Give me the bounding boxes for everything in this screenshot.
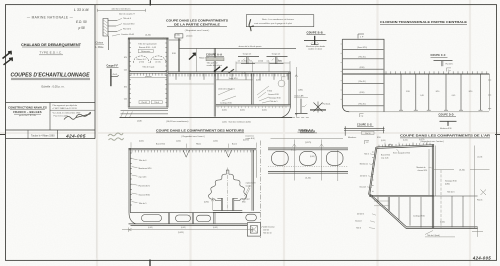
svg-text:aération: aération [186,35,193,38]
svg-text:Barrots 8/10 – 0,45: Barrots 8/10 – 0,45 [139,46,157,49]
floor ticks [218,106,286,108]
detail bracket stem [108,36,110,50]
svg-text:Gousset: Gousset [359,185,366,188]
deck web frames [176,74,288,80]
aft right tank top [434,195,478,197]
aft flag [365,140,370,144]
hull side leaders [132,159,138,203]
svg-text:soudés: soudés [246,185,252,187]
hold bay lower line [168,83,214,85]
strip dim arrows [293,144,324,147]
svg-text:COUPE C-C: COUPE C-C [431,54,446,57]
mid girder vertical [252,73,253,104]
aft right end detail [472,227,483,237]
svg-text:(Serre 8/10): (Serre 8/10) [357,47,367,49]
svg-text:(0,575): (0,575) [243,140,249,142]
svg-text:cloison 8/10: cloison 8/10 [418,170,428,172]
svg-text:(suivant xx: (suivant xx [246,134,255,137]
svg-text:120×45: 120×45 [263,228,269,231]
strip lightening hole 3 [326,151,343,165]
svg-text:8,5: 8,5 [278,61,280,63]
svg-text:Plat 45: Plat 45 [477,199,482,202]
svg-text:Plat 50: Plat 50 [365,132,370,135]
svg-text:Carlingue 8/10: Carlingue 8/10 [413,215,425,217]
svg-text:Gousset 8/10: Gousset 8/10 [123,22,134,25]
svg-text:(1,20): (1,20) [403,140,408,142]
svg-text:TYPE E.D.I.C.: TYPE E.D.I.C. [39,51,62,55]
svg-text:esp. 0,45: esp. 0,45 [139,176,147,178]
svg-text:Barrot 8/10: Barrot 8/10 [381,153,390,156]
fold shading vertical [97,0,470,266]
svg-text:4,5: 4,5 [267,61,269,63]
tank top stub over trunk [169,39,181,41]
aft right floors [452,196,463,227]
detail F-F profile [110,69,112,86]
svg-text:8/10: 8/10 [436,91,440,93]
bottom left bilge join [129,213,136,224]
pen stroke a [189,53,195,59]
signature squiggle [64,112,91,119]
svg-text:Serre 8/10: Serre 8/10 [229,77,238,80]
C-C detail [434,60,453,62]
pen stroke c [222,67,228,72]
pen stroke b [214,67,220,72]
svg-text:Tôle 5: Tôle 5 [364,153,369,155]
pencil flourish on nota [249,19,254,31]
strip bottom double line [268,171,348,173]
aft bilge slant double [369,194,407,229]
tank flat double line [129,72,167,74]
tank box bottom double [128,107,168,109]
fold tick right edge [495,134,500,136]
svg-text:Membrure: Membrure [360,163,368,165]
svg-text:45×45×5: 45×45×5 [360,174,367,177]
motors deck double line [129,148,257,150]
svg-text:( Plat 45 ): ( Plat 45 ) [358,55,366,58]
svg-text:plancher: plancher [145,75,152,78]
D-D detail [440,120,457,122]
svg-text:( Regardant vers l’avant ): ( Regardant vers l’avant ) [181,135,205,138]
svg-text:Plat 45×45×5: Plat 45×45×5 [139,184,150,187]
aft deck dim ticks [385,142,427,146]
strip upper light line [271,138,344,140]
svg-text:COUPE A-A: COUPE A-A [206,52,222,56]
engine bed scallop outline left [208,174,226,200]
svg-text:Limite de la tôle de 6: Limite de la tôle de 6 [218,87,235,90]
svg-text:Gorge 4,5: Gorge 4,5 [243,52,251,55]
svg-text:1 p: 1 p [361,115,364,117]
svg-text:(0,40): (0,40) [305,178,311,180]
svg-text:CHALAND DE DEBARQUEMENT: CHALAND DE DEBARQUEMENT [21,43,81,47]
svg-text:(0,45): (0,45) [440,221,445,223]
svg-text:L. Mixte: L. Mixte [96,46,105,49]
detail bracket leaders [112,18,122,36]
svg-text:Cloison AR: Cloison AR [294,95,304,98]
svg-text:Tôle de 5: Tôle de 5 [139,203,147,205]
svg-text:(1,83): (1,83) [298,89,303,91]
tank tunnel arcs dashed [133,56,165,63]
svg-text:Gousset 8/10: Gousset 8/10 [268,93,279,96]
G-G plate bar [344,128,385,130]
detail bracket profile [103,19,117,37]
aft dim line 3,40 [434,169,490,171]
floor top line [130,212,260,214]
bottom shell double [129,224,248,226]
svg-text:1 P: 1 P [360,37,364,39]
wing right end [488,74,491,111]
svg-text:Gousset: Gousset [355,219,362,222]
svg-text:(0,45): (0,45) [262,109,267,111]
cloison AR post [295,99,308,114]
svg-text:COUPE A-A: COUPE A-A [300,130,315,133]
engine top tab [226,170,229,174]
svg-text:Membrure 8/10: Membrure 8/10 [139,167,152,170]
svg-text:0,45: 0,45 [420,95,424,97]
stringer under deck [216,79,253,81]
motors deck ticks [132,150,254,152]
svg-text:8/10: 8/10 [406,91,410,93]
deck flag mark [388,144,391,147]
pen arrow mark 1 [3,52,12,59]
svg-text:Tôle de 5 galv.: Tôle de 5 galv. [142,67,155,69]
tank frame ticks left [129,43,131,103]
svg-text:Suite des membrures (0,30): Suite des membrures (0,30) [229,120,252,123]
approval cell rule [50,109,95,111]
main deck double line [168,72,291,74]
svg-text:8/10: 8/10 [377,137,381,139]
svg-text:FRANCO – BELGES: FRANCO – BELGES [13,110,42,114]
svg-text:( Plat 45 ): ( Plat 45 ) [358,80,366,83]
fold tick left edge [0,134,5,136]
floor lightening hole 3 [197,215,211,221]
title block lower rule [6,129,96,131]
central depth dim line [295,67,297,118]
engine centerline [227,168,229,213]
svg-text:Quille: Quille [137,121,142,123]
flag 1P top [358,34,364,39]
T detail 2 flange [267,56,288,58]
tank bottom boxed labels [139,101,149,104]
wing top ticks [386,71,487,74]
svg-text:Membrure: Membrure [348,137,356,139]
hull side right double [289,72,290,105]
strip lightening hole 2 [300,151,317,165]
aft side frame ticks [372,152,374,191]
bulkhead tall rect [342,39,384,112]
svg-text:(1,50): (1,50) [176,141,181,143]
svg-text:Carlingue: Carlingue [242,198,250,200]
B-B web dark [314,36,316,45]
svg-text:Cornière 45×45: Cornière 45×45 [121,33,134,36]
svg-text:COUPES D’ECHANTILLONNAGE: COUPES D’ECHANTILLONNAGE [11,72,91,78]
deck stiffener ticks [170,74,287,77]
svg-text:4,40 hors membrures: 4,40 hors membrures [111,8,130,10]
svg-text:Tôle de 5: Tôle de 5 [270,101,278,103]
tank frame ticks right [165,43,167,103]
svg-text:4,5: 4,5 [238,61,240,63]
strip dotted line [268,166,348,168]
svg-text:Réserv. eau: Réserv. eau [154,58,163,61]
svg-text:(2 m3): (2 m3) [139,62,144,64]
keel box [247,223,260,236]
tank top deck double line [128,38,169,39]
engine bed left dim [211,198,213,211]
aft bottom double [406,227,478,229]
svg-text:Tôle de 5 galvanisée: Tôle de 5 galvanisée [138,44,157,46]
svg-text:COUPE B-B: COUPE B-B [307,31,323,35]
floor line right half [216,104,291,106]
svg-text:esp. 0,45: esp. 0,45 [381,157,388,159]
svg-text:(1,05): (1,05) [222,121,227,123]
svg-text:4 trous: 4 trous [291,149,296,152]
svg-text:(0,80): (0,80) [445,184,450,186]
svg-text:E.D. 50: E.D. 50 [76,20,87,24]
engine seating U channel [221,198,233,210]
svg-text:Tôle de 6: Tôle de 6 [123,18,131,20]
bulkhead heavy waterline [343,73,384,75]
svg-text:(0,45): (0,45) [242,73,247,75]
bilge hatch marks [121,112,133,118]
svg-text:(0,50): (0,50) [381,140,386,142]
svg-text:Echelle : 0,05 p. m.: Echelle : 0,05 p. m. [41,85,64,89]
strip lightening hole 1 [272,151,289,165]
svg-text:8/10: 8/10 [469,91,473,93]
svg-text:Tôle 6: Tôle 6 [356,227,361,229]
svg-text:Plat boud.: Plat boud. [323,103,332,106]
svg-text:Plat 50×5: Plat 50×5 [123,28,131,31]
svg-text:dessus de la tôle de pavois: dessus de la tôle de pavois [239,45,262,48]
B-B weld marks [311,42,319,44]
svg-text:8/10: 8/10 [124,87,127,89]
svg-text:par la Cie Fº Bº S.A.: par la Cie Fº Bº S.A. [19,114,37,117]
trunk vent head [175,34,183,38]
aft bulkhead heavy vertical [432,144,433,228]
motors girder vertical [252,150,253,211]
svg-text:(4,40): (4,40) [145,35,151,37]
aft hull side double [369,147,377,194]
bilge curve right [281,104,290,117]
svg-text:(10,05 hors membrures): (10,05 hors membrures) [166,120,189,123]
left bay leaders [218,89,236,101]
main girder heavy vertical [214,48,215,116]
keel leader [261,226,263,227]
floor lightening hole 2 [176,215,191,222]
T detail 1 base [241,63,255,65]
svg-text:CLOISON TRANSVERSALE PARTIE: CLOISON TRANSVERSALE PARTIE CENTRALE [380,20,467,24]
engine casing side [255,150,257,178]
svg-text:COUPE DANS LE COMPARTIMENT: COUPE DANS LE COMPARTIMENT DES MOTEURS [156,129,244,133]
svg-text:(0,45): (0,45) [222,109,227,111]
hold mid stanchion [196,48,198,72]
motors diagonals [244,186,251,202]
aft bottom leader [425,231,455,237]
svg-text:424-005: 424-005 [65,134,86,139]
pencil stamp scribble [108,133,123,136]
svg-text:424-005: 424-005 [472,255,491,260]
T detail 2 web [276,57,277,64]
tank flat ticks [131,73,165,75]
G-G under bracket [362,131,375,134]
svg-text:Toulon le 4 Mars 1960: Toulon le 4 Mars 1960 [31,134,55,137]
bulkhead bottom line [349,111,489,113]
svg-text:(2 m3): (2 m3) [156,62,161,64]
svg-text:(8/10): (8/10) [360,92,365,94]
svg-text:(0,30): (0,30) [256,79,261,81]
fold tick bottom [149,260,151,266]
aft side leaders [367,154,374,188]
svg-text:(0,45): (0,45) [139,141,144,143]
bulkhead left ticks [341,44,343,99]
strip dim verticals [294,140,338,182]
nota box frame [246,15,313,27]
baseline keel [120,117,293,119]
B-B flange [311,44,319,46]
svg-text:Gousset 8/10: Gousset 8/10 [139,193,150,196]
T detail 1 flange [238,56,259,58]
svg-text:Plat 45×5: Plat 45×5 [446,63,453,66]
fold shading horizontal [0,132,500,134]
pen arrow mark 2 [4,58,13,65]
svg-text:Tôle de 10: Tôle de 10 [263,233,272,235]
svg-text:Barrot: Barrot [232,143,237,146]
svg-text:Varangue 8/10: Varangue 8/10 [269,98,281,100]
aft inner bottom double [369,195,433,196]
tank right side double [167,38,168,108]
svg-text:Axe du couple 27: Axe du couple 27 [119,13,135,16]
title block bottom rule [6,138,96,140]
svg-text:(0,45): (0,45) [148,227,153,229]
svg-text:Tôle de 6 (fond): Tôle de 6 (fond) [427,235,440,237]
right bay leader fan [257,86,270,103]
aft deck double line [376,145,434,149]
B-B plate line [304,40,327,42]
svg-text:soudée en about: soudée en about [308,48,323,51]
svg-text:(1,45): (1,45) [242,61,247,63]
baseline dashed extension [292,117,310,119]
T detail 2 base [270,63,284,65]
svg-text:nº 4672 CAN/1 du 12.11.59: nº 4672 CAN/1 du 12.11.59 [53,107,78,110]
svg-text:8/10: 8/10 [124,57,127,59]
svg-text:p 58: p 58 [78,26,85,30]
svg-text:soudée bout à bout: soudée bout à bout [207,64,223,67]
svg-text:Tôle 6: Tôle 6 [154,102,159,104]
svg-text:T 8/10: T 8/10 [267,90,272,92]
svg-text:Tôle de 6: Tôle de 6 [139,160,147,162]
flag 1p mid [447,68,452,72]
svg-text:(1,50): (1,50) [213,141,218,143]
scan noise texture [0,0,1,1]
strip top double line [268,148,348,150]
tank reservoir boxed label [138,49,153,52]
flag 1p below cloison [360,114,364,117]
engine bed scallop outline right [229,174,247,200]
svg-text:(0,90): (0,90) [204,201,209,203]
svg-text:(0,45): (0,45) [310,156,315,158]
svg-text:Varangue 8/10: Varangue 8/10 [445,180,457,182]
svg-text:Vu à bord, le 4 Décembre 1959: Vu à bord, le 4 Décembre 1959 [53,113,82,115]
hatched plate bar [206,58,224,61]
vertical fold line [96,140,98,258]
svg-text:(8/10): (8/10) [360,67,365,69]
svg-text:4 plats 60×8: 4 plats 60×8 [246,181,256,184]
svg-text:(0,60): (0,60) [174,35,180,37]
svg-text:Hiloire: Hiloire [196,144,201,146]
dim verticals above deck [236,61,290,72]
T detail 2 weld ticks [272,59,279,61]
svg-text:(0,45): (0,45) [181,227,186,229]
motors hull side double [129,148,130,212]
svg-text:0,45: 0,45 [124,70,127,72]
svg-text:Membrure plate-bande: Membrure plate-bande [306,45,325,48]
T detail 1 web [247,57,248,64]
floor lightening hole 4 [246,214,257,221]
drawing number cell [57,130,59,139]
right bay detail circle [278,80,285,87]
tank lower line [129,77,167,79]
engine seating flanges [217,197,237,199]
bulwark top line [179,47,296,49]
detail dim line 4,40 [98,9,146,12]
tank left side shell double [128,38,129,108]
svg-text:0,45: 0,45 [124,99,127,101]
engine bed plate [213,211,242,213]
wing hanging stiffeners [401,74,481,110]
floor girder verticals [168,213,215,224]
svg-text:(0,575): (0,575) [419,139,425,141]
motors dim extension ticks [131,142,257,148]
svg-text:Réservoirs: Réservoirs [141,50,150,53]
aft mid dash vertical [440,170,442,228]
bulkhead stiffener lines [343,49,384,106]
svg-text:sont assemblées par la gorge e: sont assemblées par la gorge et le plat. [254,22,293,25]
motors overall dim line [122,228,253,232]
centerline dash-dot [260,141,262,239]
svg-text:( Plat 45 ): ( Plat 45 ) [358,102,366,105]
svg-text:45×45×5: 45×45×5 [357,212,364,215]
svg-text:( Regardant vers l’avant ): ( Regardant vers l’avant ) [185,29,210,32]
svg-text:Membrure 8/10: Membrure 8/10 [440,127,452,130]
svg-text:(0,45): (0,45) [213,227,218,229]
svg-text:0,45: 0,45 [452,95,456,97]
svg-text:DE LA PARTIE CENTRALE: DE LA PARTIE CENTRALE [174,22,220,26]
pen stroke d [229,69,235,73]
svg-text:Réserv. G.O.: Réserv. G.O. [137,58,147,61]
svg-text:Nota : Les membrures et liaiso: Nota : Les membrures et liaisons [262,18,295,21]
svg-text:(5,025): (5,025) [178,232,184,234]
aft floors ticks [378,197,421,228]
svg-text:(1,375): (1,375) [305,142,312,144]
wing stiffener feet [399,109,483,111]
svg-text:(1,07): (1,07) [478,156,483,158]
svg-text:Gorge 4,5: Gorge 4,5 [272,52,280,55]
aft bulkhead inner flange [428,149,430,195]
tank top corner rings [129,38,131,40]
svg-text:COUPE DANS LES COMPARTIMENT: COUPE DANS LES COMPARTIMENTS DE L’AR [400,133,490,137]
fold tick top [149,0,151,6]
svg-text:Quille massive: Quille massive [263,226,275,228]
svg-text:45×45: 45×45 [113,73,118,76]
svg-text:8,5: 8,5 [250,61,252,63]
svg-text:COUPE G-G: COUPE G-G [357,124,372,126]
svg-text:— MARINE NATIONALE —: — MARINE NATIONALE — [27,16,74,20]
floor lightening hole 1 [142,215,162,222]
svg-text:(1,50): (1,50) [258,61,263,63]
T detail 1 weld ticks [243,59,250,61]
bilge keel lines left [121,110,169,114]
star detail [314,102,323,113]
svg-text:Montant de: Montant de [417,166,426,169]
title block center divider [49,103,51,131]
